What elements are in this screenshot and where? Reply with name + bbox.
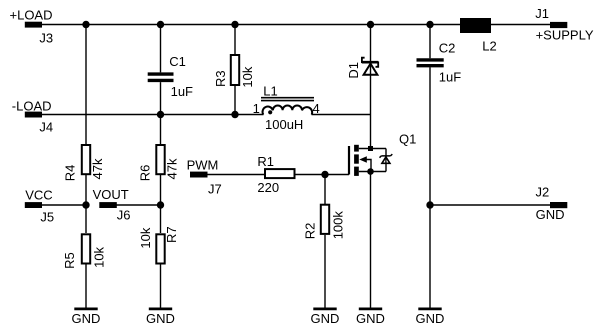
svg-text:J4: J4	[39, 120, 53, 135]
ground symbol at R2	[311, 309, 340, 326]
node top rail at C2	[426, 21, 433, 28]
svg-text:47k: 47k	[90, 158, 105, 179]
svg-text:Q1: Q1	[399, 131, 416, 146]
svg-text:GND: GND	[356, 311, 385, 326]
resistor R1	[257, 154, 294, 195]
svg-text:J1: J1	[535, 6, 549, 21]
wire -LOAD rail	[41, 114, 264, 116]
svg-text:220: 220	[257, 180, 279, 195]
node VCC junction	[82, 201, 89, 208]
wire top rail left	[41, 24, 460, 26]
connector J4	[12, 98, 53, 134]
svg-text:4: 4	[313, 101, 320, 116]
svg-text:+LOAD: +LOAD	[10, 8, 53, 23]
node -LOAD at C1	[157, 111, 164, 118]
node top rail at R3	[231, 21, 238, 28]
svg-text:GND: GND	[72, 311, 101, 326]
svg-text:VOUT: VOUT	[93, 187, 129, 202]
svg-text:L1: L1	[263, 83, 277, 98]
svg-text:J7: J7	[208, 182, 222, 197]
wire column R4/R5	[85, 25, 87, 308]
svg-text:-LOAD: -LOAD	[12, 98, 52, 113]
connector J6	[93, 187, 131, 222]
capacitor C1	[148, 54, 193, 99]
wire column D1/Q1	[370, 25, 372, 308]
svg-text:1: 1	[253, 101, 260, 116]
connector J2	[536, 184, 568, 222]
svg-text:1uF: 1uF	[171, 84, 193, 99]
wire top rail right	[491, 24, 551, 26]
svg-text:J6: J6	[117, 207, 131, 222]
wire column C2	[429, 25, 431, 308]
svg-text:100k: 100k	[331, 211, 346, 240]
connector J1	[535, 6, 594, 43]
svg-text:R5: R5	[62, 252, 77, 269]
svg-text:GND: GND	[536, 207, 565, 222]
svg-text:PWM: PWM	[187, 157, 219, 172]
wire J2 row	[430, 204, 551, 206]
svg-text:GND: GND	[146, 311, 175, 326]
svg-text:R6: R6	[137, 165, 152, 182]
resistor R6	[137, 145, 179, 181]
wire L1 to drain node	[312, 114, 371, 116]
connector J7	[187, 157, 222, 196]
node -LOAD at R3	[231, 111, 238, 118]
wire VCC row	[41, 204, 86, 206]
svg-text:R1: R1	[257, 154, 274, 169]
svg-text:100uH: 100uH	[265, 117, 303, 132]
svg-text:J5: J5	[40, 210, 54, 225]
svg-text:GND: GND	[416, 311, 445, 326]
ground symbol at R5	[72, 309, 101, 326]
resistor R4	[63, 145, 106, 181]
resistor R3	[213, 55, 255, 88]
wire column C1/R6/R7	[160, 25, 162, 308]
node GND rail at C2	[426, 201, 433, 208]
ground symbol at R7	[146, 309, 175, 326]
svg-text:C1: C1	[169, 54, 186, 69]
transistor Q1 (N-MOSFET)	[349, 131, 416, 176]
svg-text:R4: R4	[63, 165, 78, 182]
capacitor C2	[417, 40, 462, 84]
inductor L1	[253, 83, 320, 132]
svg-text:GND: GND	[311, 311, 340, 326]
svg-text:R3: R3	[213, 70, 228, 87]
node top rail at D1	[367, 21, 374, 28]
inductor L2	[460, 18, 497, 54]
svg-text:10k: 10k	[240, 66, 255, 87]
ground symbol at Q1 source	[356, 309, 385, 326]
svg-text:1uF: 1uF	[439, 69, 461, 84]
svg-text:R2: R2	[303, 223, 318, 240]
svg-text:J3: J3	[39, 31, 53, 46]
resistor R2	[303, 205, 346, 240]
wire VOUT row	[116, 204, 161, 206]
diode D1 (zener)	[346, 58, 378, 79]
svg-text:J2: J2	[536, 184, 550, 199]
resistor R5	[62, 234, 107, 269]
wire R2 column	[324, 175, 326, 308]
svg-text:C2: C2	[439, 40, 456, 55]
svg-text:47k: 47k	[165, 158, 180, 179]
connector J3	[10, 8, 54, 46]
svg-text:VCC: VCC	[25, 188, 52, 203]
node top rail at C1	[157, 21, 164, 28]
ground symbol at C2	[416, 309, 445, 326]
node top rail at R4	[82, 21, 89, 28]
wire PWM row	[208, 174, 350, 176]
svg-text:10k: 10k	[138, 227, 153, 248]
node VOUT junction	[157, 201, 164, 208]
wire column R3	[234, 25, 236, 115]
connector J5	[25, 188, 54, 225]
svg-text:L2: L2	[482, 39, 496, 54]
svg-text:R7: R7	[164, 226, 179, 243]
resistor R7	[138, 226, 179, 263]
svg-text:+SUPPLY: +SUPPLY	[536, 28, 594, 43]
svg-text:D1: D1	[346, 62, 361, 79]
node gate/R2 junction	[321, 171, 328, 178]
svg-text:10k: 10k	[92, 246, 107, 267]
